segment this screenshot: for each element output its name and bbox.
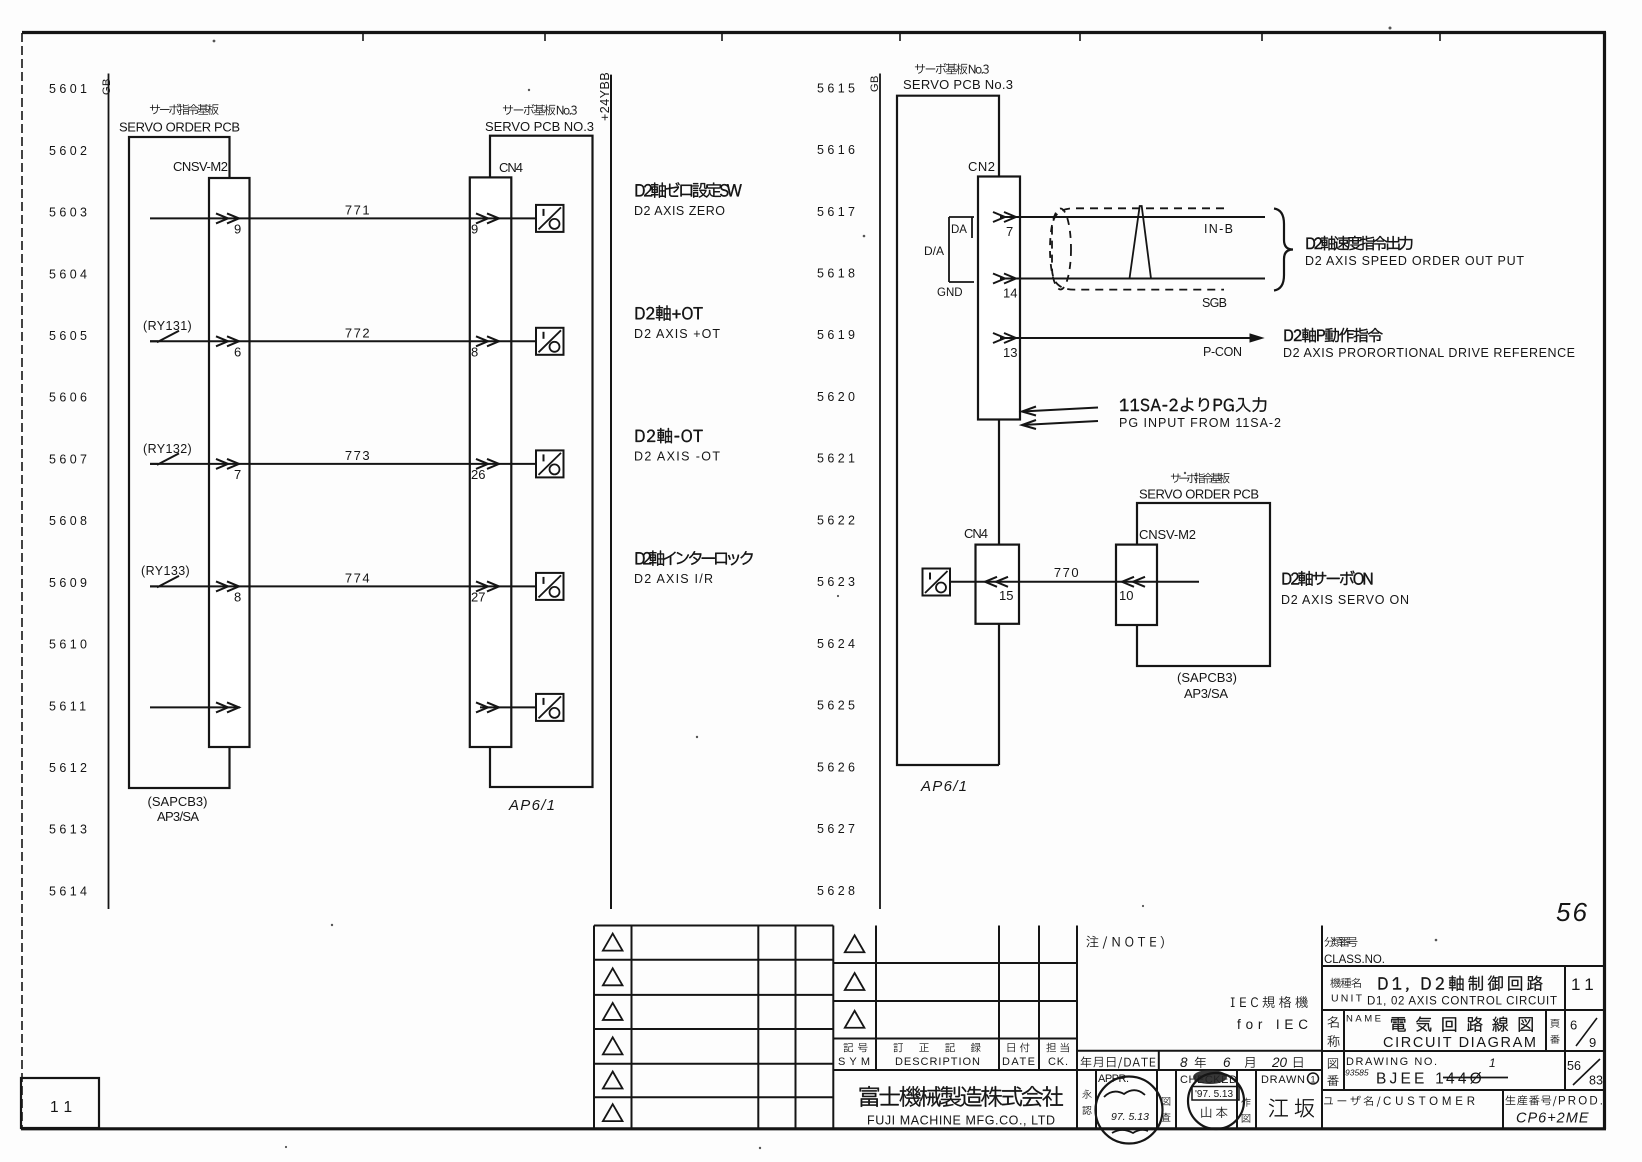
svg-text:44Ø: 44Ø xyxy=(1446,1071,1485,1088)
svg-text:FUJI MACHINE MFG.CO., LTD: FUJI MACHINE MFG.CO., LTD xyxy=(867,1114,1055,1128)
svg-text:SYM: SYM xyxy=(838,1056,870,1068)
svg-text:5624: 5624 xyxy=(817,637,858,651)
svg-text:97. 5.13: 97. 5.13 xyxy=(1111,1111,1149,1123)
svg-text:CUSTOMER: CUSTOMER xyxy=(1383,1096,1475,1108)
svg-text:'97. 5.13: '97. 5.13 xyxy=(1195,1089,1233,1100)
svg-text:(RY133): (RY133) xyxy=(141,564,190,578)
svg-text:770: 770 xyxy=(1054,565,1080,580)
svg-text:56: 56 xyxy=(1567,1059,1581,1073)
svg-text:5601: 5601 xyxy=(49,82,90,96)
svg-text:D2 AXIS -OT: D2 AXIS -OT xyxy=(634,449,720,463)
svg-text:26: 26 xyxy=(471,467,485,482)
svg-text:11: 11 xyxy=(1571,975,1599,994)
svg-text:7: 7 xyxy=(234,467,241,482)
svg-text:D2 AXIS SERVO ON: D2 AXIS SERVO ON xyxy=(1281,593,1409,607)
svg-text:8: 8 xyxy=(1180,1055,1188,1070)
svg-text:DATE: DATE xyxy=(1002,1056,1035,1068)
svg-text:5607: 5607 xyxy=(49,452,90,466)
svg-text:10: 10 xyxy=(1119,588,1133,603)
svg-text:774: 774 xyxy=(345,570,371,585)
svg-text:13: 13 xyxy=(1003,345,1017,360)
svg-text:27: 27 xyxy=(471,589,485,604)
svg-text:9: 9 xyxy=(234,221,241,236)
svg-text:9: 9 xyxy=(1589,1035,1596,1050)
svg-text:5627: 5627 xyxy=(817,822,858,836)
svg-text:CK.: CK. xyxy=(1048,1056,1068,1068)
svg-text:AP6/1: AP6/1 xyxy=(508,797,555,814)
svg-text:PG INPUT FROM 11SA-2: PG INPUT FROM 11SA-2 xyxy=(1119,416,1281,430)
svg-text:6: 6 xyxy=(1223,1055,1231,1070)
svg-text:5625: 5625 xyxy=(817,699,858,713)
svg-text:771: 771 xyxy=(345,202,371,217)
svg-text:5623: 5623 xyxy=(817,575,858,589)
svg-text:5617: 5617 xyxy=(817,205,858,219)
svg-text:BJEE 1: BJEE 1 xyxy=(1376,1071,1447,1088)
svg-text:5621: 5621 xyxy=(817,452,858,466)
svg-text:D2 AXIS SPEED ORDER OUT PUT: D2 AXIS SPEED ORDER OUT PUT xyxy=(1305,254,1524,268)
svg-text:D2 AXIS +OT: D2 AXIS +OT xyxy=(634,327,720,341)
svg-text:5611: 5611 xyxy=(49,699,89,713)
svg-text:8: 8 xyxy=(471,344,478,359)
svg-text:5619: 5619 xyxy=(817,328,858,342)
svg-text:CNSV-M2: CNSV-M2 xyxy=(1139,527,1196,542)
svg-text:SERVO PCB NO.3: SERVO PCB NO.3 xyxy=(485,119,594,134)
svg-text:CN4: CN4 xyxy=(964,526,988,541)
svg-text:CIRCUIT DIAGRAM: CIRCUIT DIAGRAM xyxy=(1383,1035,1536,1051)
svg-text:5622: 5622 xyxy=(817,513,858,527)
svg-text:5618: 5618 xyxy=(817,266,858,280)
svg-text:773: 773 xyxy=(345,448,371,463)
svg-text:AP6/1: AP6/1 xyxy=(920,778,967,795)
svg-text:5608: 5608 xyxy=(49,514,90,528)
svg-text:1: 1 xyxy=(1489,1056,1496,1070)
svg-text:5603: 5603 xyxy=(49,206,90,220)
svg-text:D2 AXIS PRORORTIONAL DRIVE REF: D2 AXIS PRORORTIONAL DRIVE REFERENCE xyxy=(1283,346,1575,360)
svg-text:5605: 5605 xyxy=(49,329,90,343)
svg-text:SERVO ORDER PCB: SERVO ORDER PCB xyxy=(119,120,240,135)
svg-text:15: 15 xyxy=(999,588,1013,603)
svg-text:5604: 5604 xyxy=(49,267,90,281)
svg-text:CN2: CN2 xyxy=(968,159,995,174)
svg-text:20: 20 xyxy=(1271,1055,1288,1070)
svg-text:5626: 5626 xyxy=(817,760,858,774)
svg-text:11: 11 xyxy=(50,1099,78,1116)
svg-text:6: 6 xyxy=(234,344,241,359)
svg-text:SERVO PCB No.3: SERVO PCB No.3 xyxy=(903,77,1013,92)
svg-text:5606: 5606 xyxy=(49,391,90,405)
svg-text:772: 772 xyxy=(345,325,371,340)
svg-text:83: 83 xyxy=(1589,1074,1603,1088)
svg-text:(SAPCB3): (SAPCB3) xyxy=(148,794,208,809)
svg-text:P-CON: P-CON xyxy=(1203,345,1242,359)
svg-text:5614: 5614 xyxy=(49,884,90,898)
svg-text:8: 8 xyxy=(234,589,241,604)
svg-text:DRAWN: DRAWN xyxy=(1261,1074,1305,1086)
svg-text:DESCRIPTION: DESCRIPTION xyxy=(895,1056,980,1068)
svg-text:CP6+2ME: CP6+2ME xyxy=(1516,1111,1590,1127)
svg-text:IN-B: IN-B xyxy=(1204,222,1233,236)
svg-text:14: 14 xyxy=(1003,286,1017,301)
svg-text:CNSV-M2: CNSV-M2 xyxy=(173,159,228,174)
svg-text:AP3/SA: AP3/SA xyxy=(1184,686,1228,701)
svg-text:AP3/SA: AP3/SA xyxy=(157,809,199,824)
svg-text:5610: 5610 xyxy=(49,638,90,652)
svg-text:(SAPCB3): (SAPCB3) xyxy=(1177,670,1237,685)
svg-text:5615: 5615 xyxy=(817,81,858,95)
svg-text:1: 1 xyxy=(1310,1075,1315,1085)
svg-text:DA: DA xyxy=(951,224,967,236)
svg-text:D2 AXIS I/R: D2 AXIS I/R xyxy=(634,572,713,586)
svg-text:GB: GB xyxy=(101,78,113,95)
svg-text:9: 9 xyxy=(471,221,478,236)
svg-text:PROD.: PROD. xyxy=(1558,1096,1603,1108)
svg-text:(RY132): (RY132) xyxy=(143,442,192,456)
svg-text:5609: 5609 xyxy=(49,576,90,590)
svg-text:D/A: D/A xyxy=(924,244,944,258)
svg-text:GND: GND xyxy=(937,287,963,299)
svg-text:5620: 5620 xyxy=(817,390,858,404)
svg-text:93585: 93585 xyxy=(1345,1068,1369,1078)
svg-text:5628: 5628 xyxy=(817,884,858,898)
svg-text:(RY131): (RY131) xyxy=(143,319,192,333)
svg-text:5613: 5613 xyxy=(49,823,90,837)
svg-text:SERVO ORDER PCB: SERVO ORDER PCB xyxy=(1139,487,1259,502)
svg-text:7: 7 xyxy=(1006,224,1013,239)
svg-text:CN4: CN4 xyxy=(499,160,523,175)
svg-text:SGB: SGB xyxy=(1202,296,1227,310)
svg-text:6: 6 xyxy=(1570,1018,1577,1033)
svg-text:DRAWING NO.: DRAWING NO. xyxy=(1346,1056,1437,1068)
svg-text:D2 AXIS ZERO: D2 AXIS ZERO xyxy=(634,204,725,218)
svg-text:APPR.: APPR. xyxy=(1098,1073,1129,1085)
svg-text:NAME: NAME xyxy=(1346,1014,1381,1025)
svg-text:5612: 5612 xyxy=(49,761,90,775)
svg-text:CLASS.NO.: CLASS.NO. xyxy=(1324,954,1385,966)
svg-text:5602: 5602 xyxy=(49,144,90,158)
svg-text:D1, 02 AXIS CONTROL CIRCUIT: D1, 02 AXIS CONTROL CIRCUIT xyxy=(1367,996,1557,1008)
svg-text:+24YBB: +24YBB xyxy=(598,72,612,121)
svg-text:UNIT: UNIT xyxy=(1331,993,1363,1005)
svg-text:5616: 5616 xyxy=(817,143,858,157)
svg-text:56: 56 xyxy=(1556,897,1589,927)
